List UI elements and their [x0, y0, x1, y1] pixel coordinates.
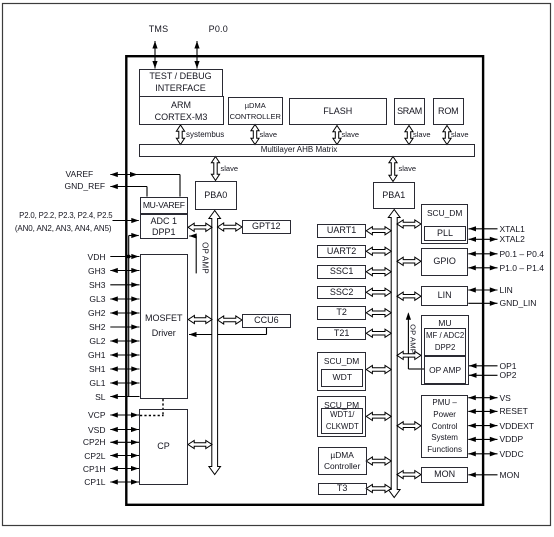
bus arrow FLASH slave [333, 126, 341, 145]
wire pin GH3 [110, 268, 139, 273]
label CP1H [83, 463, 106, 475]
label MON [500, 469, 520, 481]
label CP2L [84, 450, 105, 462]
wire pin OP2 [469, 373, 498, 378]
MU measurement unit [421, 315, 469, 386]
wire P2.x analog inputs [113, 218, 139, 223]
bus arrow T21-bus [366, 329, 391, 337]
bus arrow SSC1-bus [366, 268, 391, 276]
wire pin MON [468, 472, 497, 477]
label slave [342, 129, 360, 141]
wire pin P1.0-P1.4 [468, 265, 497, 270]
label OP AMP (left, rotated) [201, 242, 210, 274]
wire dotted MOSFET-CP link [140, 399, 164, 416]
T3 timer [318, 483, 367, 496]
label VS [500, 392, 511, 404]
label GH3 [88, 265, 105, 277]
bus arrow bus-GPT12 [218, 223, 243, 231]
wire pin CP1H [110, 466, 139, 471]
label P1.0 – P1.4 [500, 262, 544, 274]
wire pin VCP [110, 412, 139, 417]
bus arrow uDMA-ctl-bus [366, 457, 391, 465]
label XTAL1 [500, 223, 525, 235]
label systembus [186, 129, 224, 141]
wire VDH/SL sense to ADC1 [129, 233, 139, 397]
Multilayer AHB Matrix [139, 144, 475, 157]
label GL2 [89, 335, 105, 347]
GPT12 timer [242, 220, 291, 234]
wire pin GH2 [110, 310, 139, 315]
label VAREF [66, 168, 94, 180]
bus arrow SRAM slave [405, 126, 413, 145]
bus arrow PBA1 slave [389, 157, 397, 182]
SSC2 [317, 286, 366, 300]
wire pin RESET [468, 409, 497, 414]
MON monitor input [421, 467, 468, 483]
label SH1 [89, 363, 106, 375]
junction VDH node [127, 255, 131, 259]
label slave [399, 163, 417, 175]
wire pin GL2 [110, 338, 139, 343]
MOSFET driver [140, 254, 189, 400]
wire pin GND_LIN [468, 301, 497, 306]
bus arrow uDMA slave [251, 125, 259, 145]
uDMA Controller (APB) [318, 447, 367, 475]
label GND_LIN [500, 297, 537, 309]
label SL [95, 391, 105, 403]
wire pin XTAL2 [469, 237, 498, 242]
wire pin GL1 [110, 380, 139, 385]
bus arrow UART2-bus [366, 247, 391, 255]
bus arrow UART1-bus [366, 227, 391, 235]
label VCP [88, 409, 105, 421]
SCU_DM right (clock) [421, 204, 468, 244]
bus arrow bus-SCU_DM-right [397, 220, 421, 228]
wire pin SL [110, 394, 139, 399]
MF/ADC2 DPP2 [424, 328, 466, 356]
label OP1 [500, 360, 517, 372]
ROM memory [433, 98, 464, 126]
label OP2 [500, 369, 517, 381]
wire pin SH3 [110, 282, 139, 287]
wire P0.0 pin [194, 41, 199, 69]
OP AMP block [424, 356, 466, 384]
bus arrow bus-MON [397, 471, 421, 479]
label P2.0, P2.2, P2.3, P2.4, P2.5 [19, 210, 112, 222]
bus arrow MOSFET-bus [188, 315, 212, 323]
wire OP AMP from MU [406, 312, 424, 369]
wire pin GH1 [110, 352, 139, 357]
label CP2H [83, 436, 106, 448]
ADC 1 / DPP1 [140, 214, 189, 239]
PBA1 bridge [373, 182, 415, 209]
wire pin CP1L [110, 479, 139, 484]
LIN transceiver [421, 286, 468, 306]
PBA0 bridge [195, 181, 237, 210]
wire pin P0.1-P0.4 [468, 251, 497, 256]
wire pin VDDEXT [468, 423, 497, 428]
wire pin VDH [110, 254, 139, 259]
wire CCU6 to MOSFET driver [189, 327, 267, 337]
label P0.1 – P0.4 [500, 248, 544, 260]
wire GND_REF [110, 184, 147, 197]
bus arrow ADC1-bus [188, 223, 212, 231]
CP charge pump [139, 409, 188, 485]
bus arrow T3-bus [366, 484, 391, 492]
label TMS [149, 23, 169, 35]
label GND_REF [65, 180, 106, 192]
GPIO ports [421, 248, 468, 276]
label GL3 [89, 293, 105, 305]
wire pin VSD [110, 427, 139, 432]
CCU6 timer [242, 314, 291, 328]
wire pin OP1 [469, 363, 498, 368]
label LIN [500, 284, 513, 296]
label VDDEXT [500, 420, 534, 432]
bus arrow T2-bus [366, 309, 391, 317]
label slave [221, 163, 239, 175]
bus arrow bus-GPIO [397, 257, 421, 265]
bus arrow SCU_DM-mid-bus [366, 365, 391, 373]
label GH2 [88, 307, 105, 319]
wire TMS pin [152, 41, 157, 69]
wire pin LIN [468, 287, 497, 292]
label slave [413, 129, 431, 141]
label slave [451, 129, 469, 141]
T21 timer [317, 327, 366, 341]
ARM Cortex-M3 core [139, 96, 224, 125]
PLL [424, 226, 466, 241]
SCU_PM (power mode) [317, 396, 366, 437]
wire pin VDDC [468, 451, 497, 456]
bus arrow bus-CCU6 [218, 316, 243, 324]
label VDDP [500, 433, 524, 445]
chip boundary [126, 56, 483, 505]
test/debug interface U-TDI [139, 69, 223, 98]
bus arrow SSC2-bus [366, 288, 391, 296]
bus arrow systembus [176, 125, 184, 145]
wire OP AMP to ADC1 [189, 233, 197, 273]
WDT watchdog [321, 369, 363, 387]
T2 timer [317, 306, 366, 320]
bus arrow CP-bus [188, 440, 212, 448]
bus arrow PBA0 slave [211, 157, 219, 181]
wire pin SH1 [110, 366, 139, 371]
label SH2 [89, 321, 106, 333]
bus arrow bus-PMU [397, 422, 421, 430]
wire pin CP2H [110, 440, 139, 445]
WDT1/CLKWDT watchdogs [321, 408, 363, 434]
bus arrow PBA0 peripheral bus [209, 211, 221, 475]
wire pin GL3 [110, 296, 139, 301]
bus arrow PBA1 peripheral bus [388, 210, 400, 498]
wire pin SH2 [110, 324, 139, 329]
label SH3 [89, 279, 106, 291]
wire pin VS [468, 395, 497, 400]
UART1 [317, 224, 366, 238]
label slave [260, 129, 278, 141]
label XTAL2 [500, 233, 525, 245]
label VSD [88, 424, 105, 436]
MU-VAREF [140, 197, 189, 215]
label GL1 [89, 377, 105, 389]
FLASH memory [289, 98, 387, 126]
wire pin CP2L [110, 453, 139, 458]
label P0.0 [209, 23, 228, 35]
bus arrow SCU_PM-bus [366, 412, 391, 420]
wire VAREF [110, 172, 180, 197]
uDMA controller (AHB) [228, 97, 283, 126]
SCU_DM (system control) [317, 352, 366, 391]
wire pin VDDP [468, 437, 497, 442]
bus arrow ROM slave [443, 126, 451, 145]
PMU power control [421, 395, 468, 459]
label CP1L [84, 476, 105, 488]
bus arrow bus-MU [397, 351, 421, 359]
label VDDC [500, 448, 524, 460]
label OP AMP (right, rotated) [408, 324, 417, 354]
SSC1 [317, 265, 366, 279]
UART2 [317, 245, 366, 259]
label (AN0, AN2, AN3, AN4, AN5) [15, 223, 112, 235]
bus arrow bus-LIN [397, 292, 421, 300]
label VDH [88, 251, 106, 263]
SRAM memory [394, 98, 425, 126]
label GH1 [88, 349, 105, 361]
label RESET [500, 405, 528, 417]
wire pin XTAL1 [469, 226, 498, 231]
